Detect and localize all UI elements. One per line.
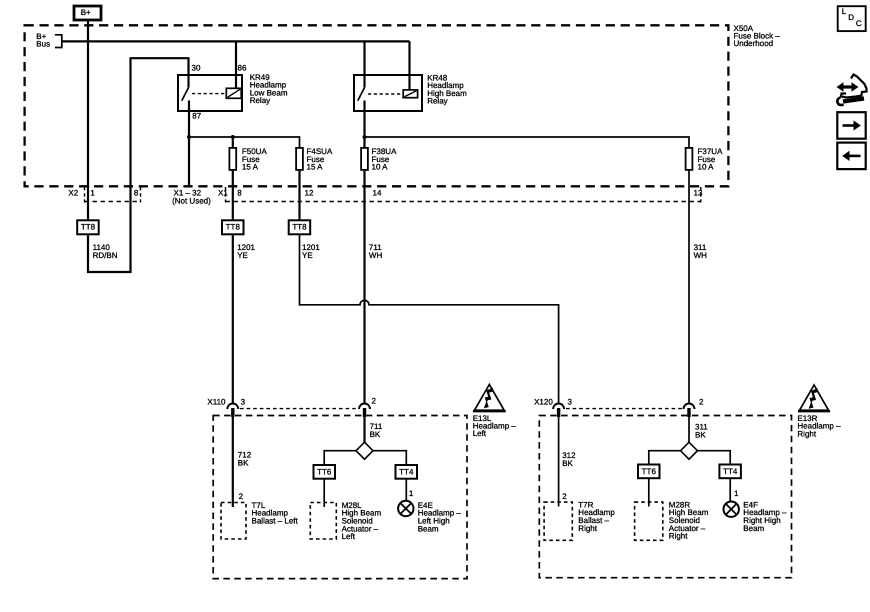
label 712 BK <box>238 450 252 467</box>
label F4SUA Fuse 15 A <box>307 147 333 172</box>
svg-text:10 A: 10 A <box>698 163 715 172</box>
icon data link references (double arrow with connector and wrench) <box>837 75 867 106</box>
svg-text:X2: X2 <box>68 189 78 198</box>
junction at F38UA <box>363 135 367 139</box>
svg-text:Left: Left <box>342 532 356 541</box>
svg-text:BK: BK <box>238 458 249 467</box>
svg-text:WH: WH <box>694 251 708 260</box>
fuse F37UA <box>686 148 693 170</box>
svg-text:TT8: TT8 <box>226 223 241 232</box>
wire: KR49 87 down to X1-32 stub <box>188 111 190 186</box>
label relay KR49 <box>250 73 288 105</box>
svg-text:15 A: 15 A <box>307 163 324 172</box>
label F37UA Fuse 10 A <box>698 147 724 172</box>
svg-text:BK: BK <box>370 430 381 439</box>
svg-text:TT8: TT8 <box>81 223 96 232</box>
wire: KR48 87 down through F38UA <box>363 111 365 148</box>
svg-text:BK: BK <box>695 430 706 439</box>
label F50UA Fuse 15 A <box>242 147 268 172</box>
svg-text:TT4: TT4 <box>723 467 738 476</box>
wire: TT4 to lamp E4F <box>729 478 731 501</box>
relay KR49 switch <box>182 75 189 111</box>
label 311 BK <box>695 422 708 439</box>
connector X120 pin 3 half-circle <box>553 404 564 417</box>
relay KR48 coil <box>403 90 417 98</box>
svg-text:14: 14 <box>373 189 382 198</box>
connector X110 dashed face line <box>240 408 358 410</box>
splice TT8 on 1201 right <box>289 220 311 234</box>
relay KR48 dashed actuator link <box>368 93 403 95</box>
battery feed B+ box <box>74 6 101 20</box>
wire: B+ drop to X2 pin 1 <box>87 20 89 220</box>
svg-text:Relay: Relay <box>427 97 447 106</box>
wire: TT6 to M28R <box>648 478 650 506</box>
splice TT4 right <box>719 465 741 479</box>
fuse F4SUA <box>296 148 303 170</box>
svg-text:1: 1 <box>90 189 95 198</box>
svg-text:2: 2 <box>562 492 567 501</box>
svg-text:2: 2 <box>239 492 244 501</box>
label M28L High Beam Solenoid Actuator Left <box>342 501 382 541</box>
wire: high beam relay switch feed <box>363 41 365 87</box>
wire: 311 WH down to X120 pin 2 <box>688 170 690 404</box>
svg-text:X1: X1 <box>218 189 228 198</box>
relay KR49 dashed actuator link <box>192 93 226 95</box>
connector X120 dashed face line <box>566 408 682 410</box>
junction at F50UA branch <box>231 135 235 139</box>
wire: right side branch to TT4 <box>697 451 731 465</box>
component box E13R Headlamp Right dashed <box>539 416 791 578</box>
label B+ Bus <box>36 32 50 48</box>
splice TT4 left <box>396 465 418 479</box>
svg-text:Beam: Beam <box>743 524 764 533</box>
label T7R Headlamp Ballast Right <box>578 500 615 532</box>
wire: 1201 YE left down to X110 pin 3 <box>232 234 234 403</box>
svg-text:3: 3 <box>568 397 573 406</box>
warning triangle E13R <box>798 385 830 411</box>
svg-text:BK: BK <box>562 459 573 468</box>
svg-text:8: 8 <box>134 189 139 198</box>
wire: 1201 YE right down and across with hop to X120 pin 3 <box>300 234 559 403</box>
svg-text:RD/BN: RD/BN <box>93 251 118 260</box>
connector X110 pin 3 half-circle <box>227 404 238 417</box>
splice TT8 on 1140 circuit <box>77 220 99 234</box>
icon LOC box <box>838 6 866 31</box>
connector X2 dashed outline <box>85 187 141 203</box>
splice diamond left <box>356 442 373 459</box>
wire: 711 BK to splice diamond <box>363 417 365 443</box>
wire: high beam fuse feed horizontal to F37UA <box>365 137 690 148</box>
svg-text:30: 30 <box>192 63 201 72</box>
splice TT6 left <box>314 465 336 479</box>
connector X120 pin 2 half-circle <box>684 404 695 417</box>
label 1201 YE right <box>302 243 320 260</box>
component box M28R dashed <box>635 502 663 540</box>
svg-text:Right: Right <box>797 429 816 438</box>
fuse F50UA <box>229 148 236 170</box>
B+ bus bracket <box>55 35 62 48</box>
wire: TT6 to M28L <box>323 479 325 507</box>
svg-text:Right: Right <box>669 532 688 541</box>
label relay KR48 <box>427 73 467 105</box>
component box T7R dashed <box>544 502 572 540</box>
svg-text:TT8: TT8 <box>292 223 307 232</box>
connector X110 pin 2 half-circle <box>359 404 370 417</box>
label E4E Headlamp Left High Beam <box>418 501 462 533</box>
relay KR48 switch <box>358 88 365 111</box>
wire: 711 WH down to X110 pin 2 <box>363 170 365 404</box>
component box E13L Headlamp Left dashed <box>213 416 467 579</box>
svg-text:(Not Used): (Not Used) <box>172 196 211 205</box>
wire: high beam relay coil feed <box>408 41 410 90</box>
label 311 WH <box>694 243 708 260</box>
svg-text:2: 2 <box>372 397 377 406</box>
svg-text:YE: YE <box>237 251 248 260</box>
svg-text:1: 1 <box>409 489 414 498</box>
label E13L Headlamp Left <box>473 414 517 438</box>
wire: left branch to TT6 <box>324 451 357 465</box>
label X50A Fuse Block - Underhood <box>734 24 781 48</box>
wire: low beam relay coil feed 86 <box>235 41 237 88</box>
wire: F50UA to TT8 <box>232 170 234 220</box>
svg-text:Right: Right <box>578 524 597 533</box>
svg-text:B+: B+ <box>81 8 91 17</box>
svg-text:3: 3 <box>241 397 246 406</box>
svg-text:1: 1 <box>734 489 739 498</box>
label 1201 YE left <box>237 243 255 260</box>
svg-text:Beam: Beam <box>418 524 439 533</box>
label E13R Headlamp Right <box>797 414 841 438</box>
svg-text:Left: Left <box>473 429 487 438</box>
svg-text:X120: X120 <box>534 397 553 406</box>
svg-text:Ballast – Left: Ballast – Left <box>252 517 299 526</box>
label E4F Headlamp Right High Beam <box>743 500 787 532</box>
wire: right branch to TT4 <box>372 451 406 465</box>
label 711 WH <box>369 243 383 260</box>
svg-text:X110: X110 <box>207 397 226 406</box>
svg-text:C: C <box>856 19 862 28</box>
icon backward reference arrow box <box>837 143 865 170</box>
svg-text:WH: WH <box>369 251 383 260</box>
wire: 712 BK to T7L <box>232 417 234 507</box>
svg-text:10 A: 10 A <box>372 163 389 172</box>
svg-text:2: 2 <box>699 397 704 406</box>
component box T7L dashed <box>221 503 246 540</box>
splice TT8 on 1201 left <box>222 220 244 234</box>
label T7L Headlamp Ballast Left <box>252 501 299 526</box>
wire: F4SUA to TT8 <box>298 170 300 220</box>
svg-text:Underhood: Underhood <box>734 39 774 48</box>
wire: 311 BK to splice diamond right <box>688 417 690 443</box>
label M28R High Beam Solenoid Actuator Right <box>669 500 709 540</box>
label X1-32 Not Used <box>172 189 211 206</box>
wire: right side branch to TT6 <box>649 451 682 465</box>
wire: F50UA branch <box>232 137 234 148</box>
label 1140 RD/BN <box>93 243 118 260</box>
svg-text:8: 8 <box>237 189 242 198</box>
svg-text:Bus: Bus <box>36 39 50 48</box>
svg-text:L: L <box>842 7 847 16</box>
svg-text:TT6: TT6 <box>642 467 657 476</box>
wire: B+ bus <box>62 40 410 42</box>
svg-text:15 A: 15 A <box>242 163 259 172</box>
fuse block X50A dashed border <box>25 25 729 186</box>
svg-text:D: D <box>848 13 854 22</box>
connector X1 dashed outline <box>226 187 701 203</box>
icon forward reference arrow box <box>837 112 865 139</box>
junction at 87 stub <box>187 135 191 139</box>
wire: TT4 to lamp E4E <box>405 479 407 501</box>
fuse F38UA <box>361 148 368 170</box>
relay KR48 box <box>354 75 422 111</box>
svg-text:YE: YE <box>302 251 313 260</box>
wire: low beam fuse feed horizontal <box>189 137 300 148</box>
svg-text:Relay: Relay <box>250 96 270 105</box>
warning triangle E13L <box>473 385 506 412</box>
svg-text:13: 13 <box>694 189 703 198</box>
svg-text:87: 87 <box>192 112 201 121</box>
splice TT6 right <box>638 465 660 479</box>
svg-text:TT4: TT4 <box>399 467 414 476</box>
splice diamond right <box>681 442 698 459</box>
wire: KR49 terminal 30 loop to X2 pin 8 and 1140 circuit U-turn <box>88 58 189 272</box>
lamp E4E Headlamp Left High Beam <box>398 501 413 516</box>
lamp E4F Headlamp Right High Beam <box>724 502 739 517</box>
label 711 BK <box>370 422 383 439</box>
wire: 312 BK to T7R <box>558 417 560 507</box>
svg-text:86: 86 <box>238 63 247 72</box>
relay KR49 coil <box>226 88 241 98</box>
label 312 BK <box>562 451 576 468</box>
label F38UA Fuse 10 A <box>372 147 398 172</box>
component box M28L dashed <box>310 503 336 540</box>
relay KR49 box <box>178 75 242 111</box>
svg-text:TT6: TT6 <box>317 467 332 476</box>
svg-text:12: 12 <box>305 189 314 198</box>
